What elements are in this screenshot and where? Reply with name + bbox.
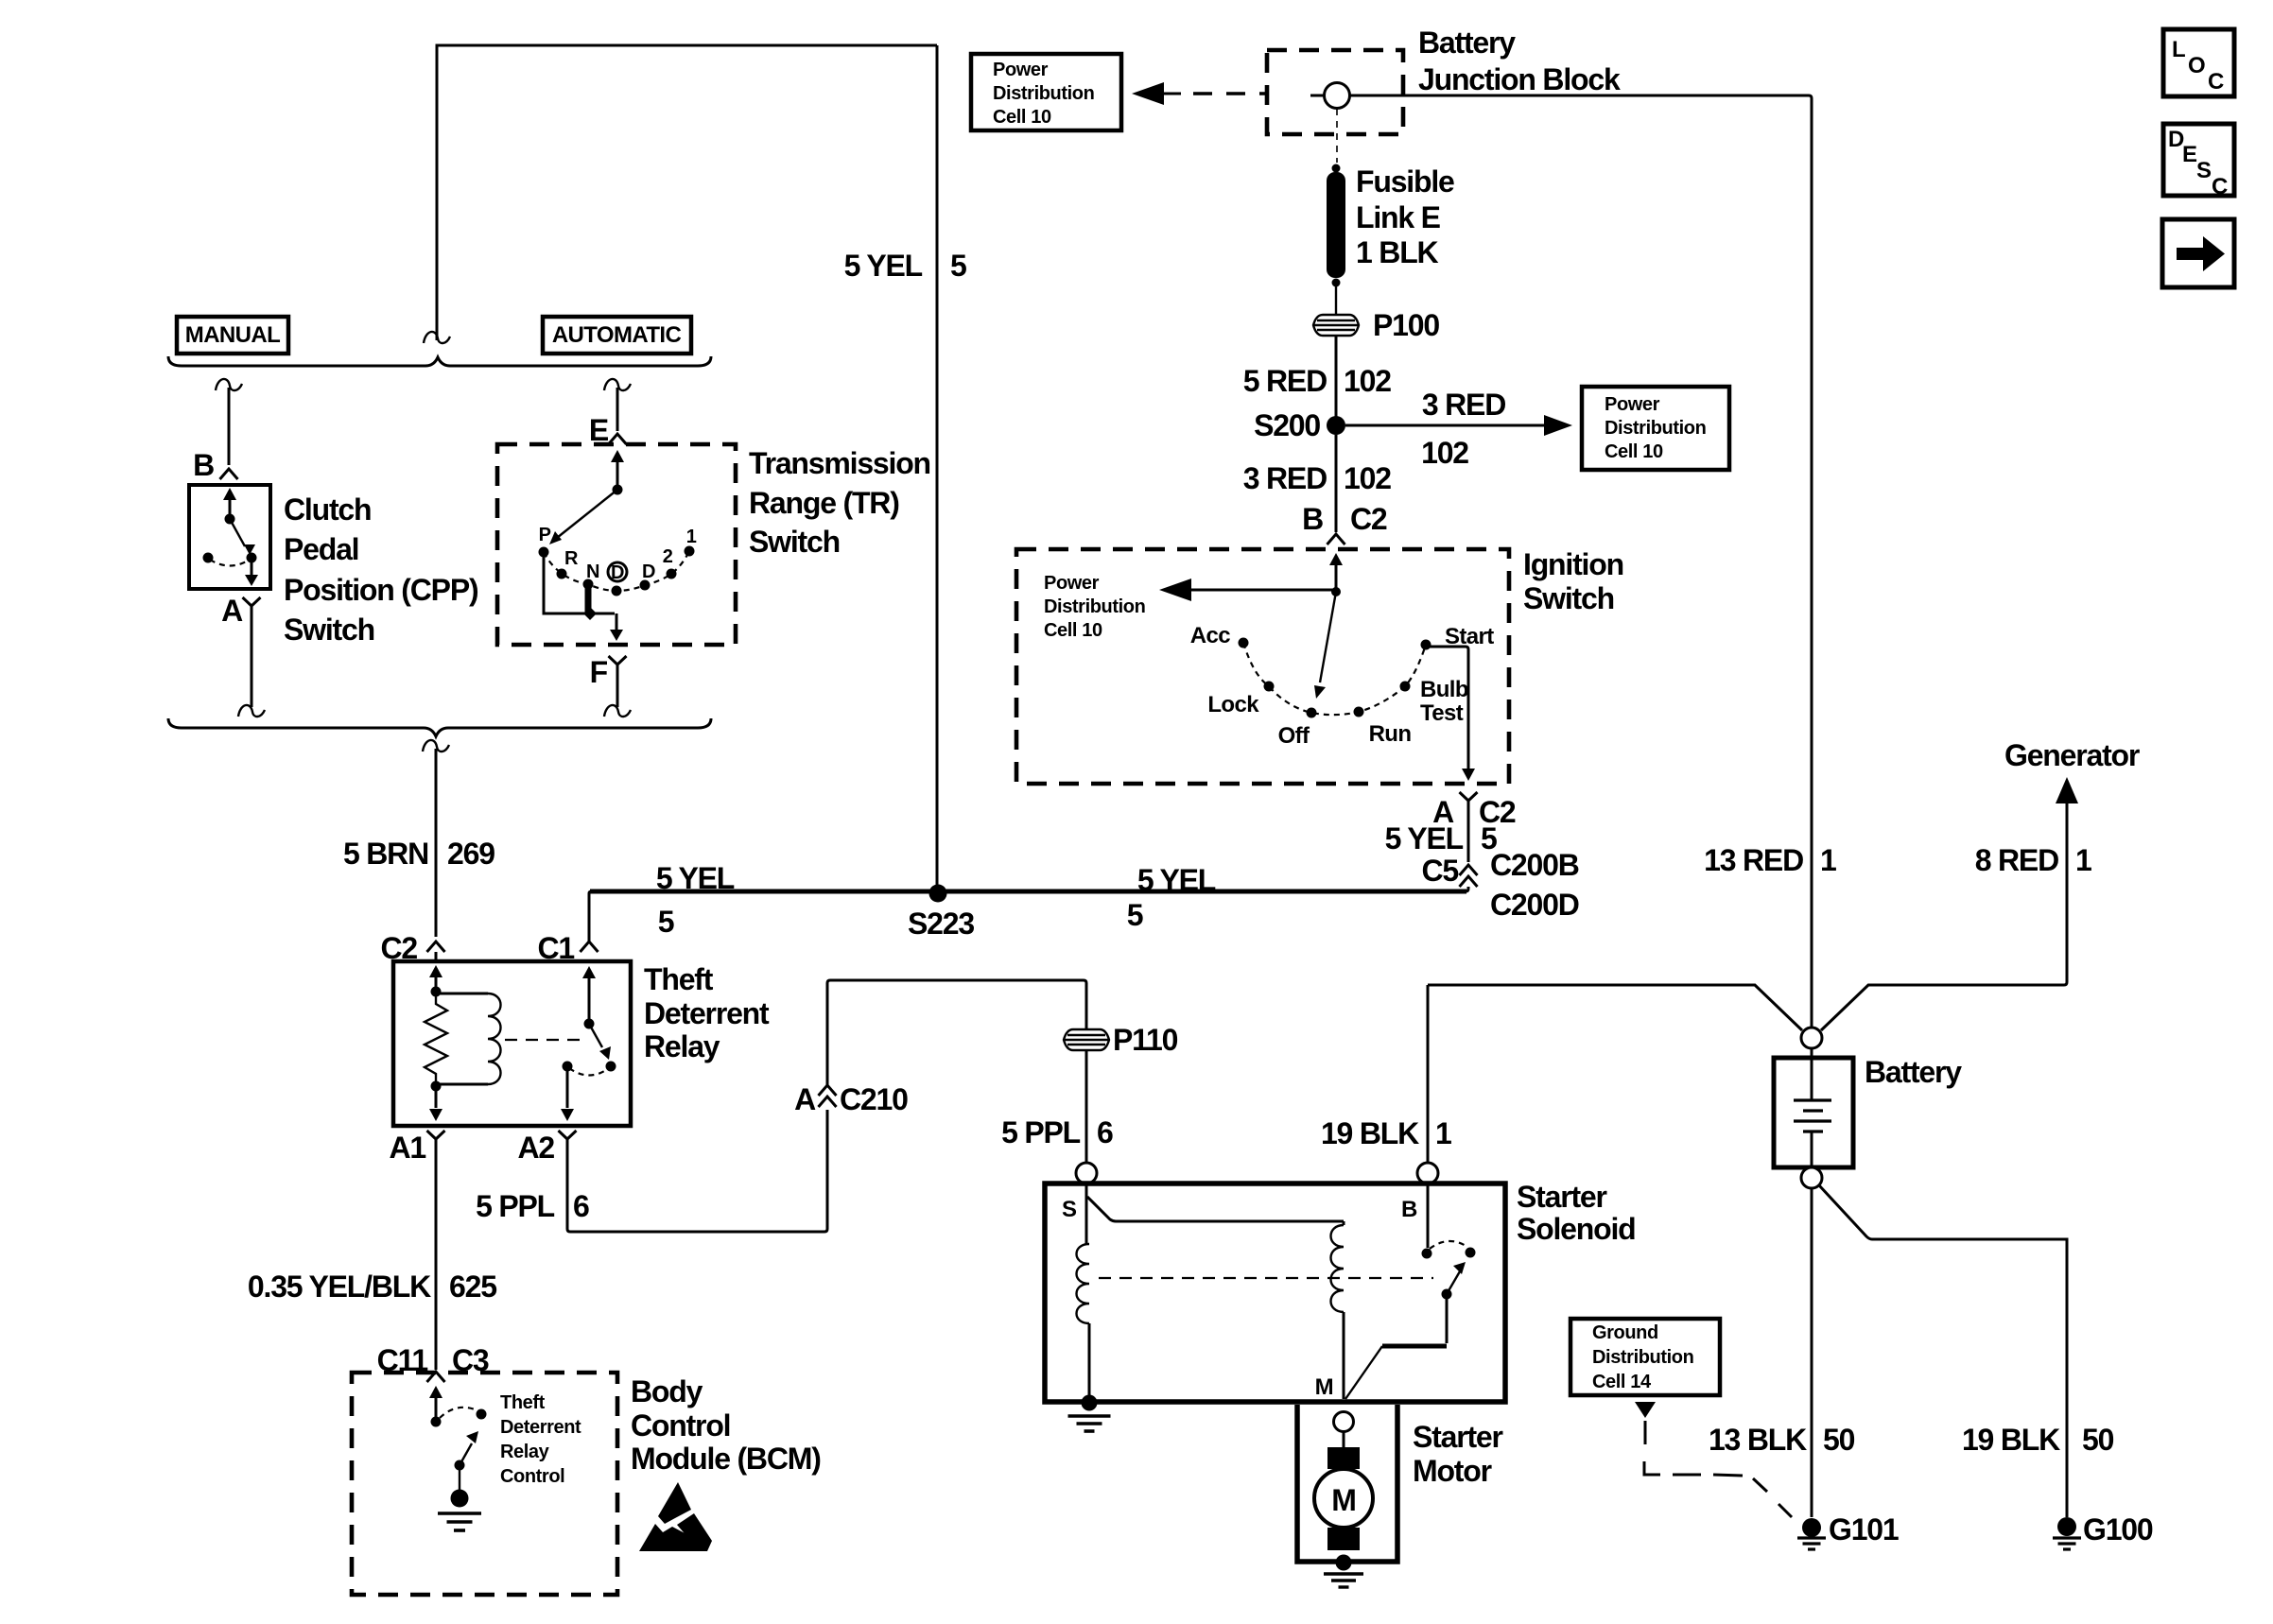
clutch pedal position switch box <box>189 485 270 589</box>
CPP switch travel dashed arc <box>210 560 250 566</box>
svg-text:Power: Power <box>1044 573 1100 594</box>
svg-text:MANUAL: MANUAL <box>185 322 280 348</box>
svg-text:50: 50 <box>2082 1423 2114 1457</box>
TR switch position N <box>583 579 594 590</box>
svg-text:E: E <box>2182 142 2197 167</box>
connector A C2 below ignition switch <box>1460 792 1478 807</box>
svg-text:Body: Body <box>631 1374 703 1408</box>
svg-text:B: B <box>1302 502 1323 536</box>
starter motor ground <box>1336 1555 1352 1571</box>
CPP switch contact arrow up <box>229 497 232 519</box>
svg-text:5 YEL: 5 YEL <box>1137 863 1216 897</box>
svg-text:C2: C2 <box>1350 502 1387 536</box>
TR switch output arrow down to F <box>616 613 618 630</box>
svg-text:5 YEL: 5 YEL <box>844 249 923 283</box>
ignition start wire down to A terminal <box>1426 647 1468 769</box>
TR switch travel dashed arc <box>544 551 689 591</box>
svg-text:8 RED: 8 RED <box>1975 843 2058 877</box>
solenoid moving contact <box>1442 1289 1452 1300</box>
battery box <box>1774 1058 1853 1167</box>
svg-text:AUTOMATIC: AUTOMATIC <box>552 322 682 348</box>
relay contact arrow down to A1 <box>435 1086 438 1108</box>
svg-text:Solenoid: Solenoid <box>1517 1212 1636 1246</box>
svg-text:F: F <box>590 655 608 689</box>
solenoid contact travel dashed arc <box>1430 1241 1467 1249</box>
legend LOC box <box>2163 29 2234 96</box>
svg-text:Distribution: Distribution <box>1605 418 1706 439</box>
svg-text:Deterrent: Deterrent <box>644 996 770 1030</box>
fusible link E 1 BLK <box>1332 164 1341 173</box>
wire 5 RED 102 <box>1335 336 1338 417</box>
connector C5 C200B C200D double chevron <box>1460 865 1478 875</box>
svg-text:D: D <box>611 562 624 583</box>
TR junction diamond <box>583 607 597 620</box>
legend DESC box <box>2163 124 2234 196</box>
svg-text:L: L <box>2172 37 2185 62</box>
starter solenoid S terminal circle <box>1076 1163 1097 1183</box>
svg-text:1 BLK: 1 BLK <box>1356 235 1439 269</box>
dashed arrow from battery junction block to power distribution <box>1132 82 1164 105</box>
svg-text:Ground: Ground <box>1592 1322 1658 1343</box>
svg-text:C: C <box>2208 69 2224 95</box>
TR switch position P <box>539 547 549 558</box>
svg-text:Control: Control <box>500 1466 564 1487</box>
svg-text:1: 1 <box>686 527 697 547</box>
starter solenoid B terminal circle <box>1417 1163 1438 1183</box>
svg-text:5 RED: 5 RED <box>1243 364 1327 398</box>
svg-text:Fusible: Fusible <box>1356 164 1454 199</box>
svg-text:13 RED: 13 RED <box>1704 843 1803 877</box>
svg-text:Deterrent: Deterrent <box>500 1417 581 1438</box>
svg-text:C1: C1 <box>537 931 574 965</box>
wire from F to lower brace <box>616 671 619 707</box>
solenoid S wire to windings <box>1085 1183 1088 1244</box>
svg-text:Acc: Acc <box>1190 623 1230 648</box>
BCM theft deterrent relay control driver arrow <box>435 1397 438 1422</box>
solenoid hold-in winding <box>1331 1225 1345 1312</box>
ignition switch arrow left to power distribution <box>1175 589 1336 592</box>
label MANUAL <box>177 317 288 354</box>
svg-text:C200B: C200B <box>1490 848 1579 882</box>
grommet P110 <box>1064 1029 1109 1050</box>
svg-text:Cell 10: Cell 10 <box>1044 620 1102 641</box>
starter motor housing <box>1297 1405 1397 1562</box>
ignition switch movable blade <box>1320 592 1336 682</box>
theft deterrent relay box <box>393 961 631 1126</box>
TR switch movable blade to P <box>557 490 617 538</box>
svg-text:P100: P100 <box>1373 308 1439 342</box>
svg-text:M: M <box>1331 1483 1355 1517</box>
wire TR branch with break curl <box>604 379 631 390</box>
svg-text:6: 6 <box>573 1189 589 1223</box>
TR switch position 2 <box>667 569 677 579</box>
TR switch position R <box>557 569 567 579</box>
junction block terminal circle <box>1310 95 1324 97</box>
solenoid linkage dashed <box>1099 1277 1433 1279</box>
ignition position Lock <box>1264 682 1275 692</box>
wire 3 RED 102 from S200 down to ignition <box>1335 435 1338 532</box>
wire 5 YEL from C1 up to bus <box>589 891 592 942</box>
svg-text:Switch: Switch <box>284 613 374 647</box>
starter motor M terminal circle <box>1334 1412 1354 1432</box>
wire 5 YEL 5 ignition output <box>1467 807 1470 862</box>
svg-text:Module (BCM): Module (BCM) <box>631 1442 821 1476</box>
svg-text:Distribution: Distribution <box>993 83 1094 104</box>
wire 5 BRN 269 from brace to C2 <box>423 740 449 752</box>
wire generator 8 RED 1 <box>1821 790 2067 1030</box>
transmission range switch dashed box <box>497 444 736 645</box>
svg-text:A1: A1 <box>389 1131 425 1165</box>
svg-text:5: 5 <box>1127 898 1143 932</box>
grommet P100 <box>1313 315 1359 336</box>
svg-text:A2: A2 <box>517 1131 554 1165</box>
svg-text:102: 102 <box>1344 364 1391 398</box>
svg-text:3 RED: 3 RED <box>1422 388 1505 422</box>
arrow 3 RED 102 to power distribution <box>1345 424 1558 427</box>
relay resistor <box>425 992 447 1086</box>
svg-text:Cell 10: Cell 10 <box>1605 441 1663 462</box>
svg-text:S: S <box>2196 158 2212 183</box>
wire C5 into 5 YEL bus <box>1466 887 1468 891</box>
TR switch position D circled <box>608 562 627 581</box>
ground G101 <box>1802 1518 1821 1537</box>
svg-text:Off: Off <box>1278 723 1310 749</box>
battery junction block dashed box <box>1267 50 1403 134</box>
ignition switch arrow up to B terminal <box>1335 564 1338 592</box>
svg-text:5 YEL: 5 YEL <box>656 861 735 895</box>
ignition position Off <box>1307 708 1317 718</box>
svg-text:P: P <box>539 525 551 545</box>
wire 5 PPL 6 to starter solenoid S <box>1085 1050 1088 1162</box>
svg-text:Ignition: Ignition <box>1523 547 1623 581</box>
svg-text:S200: S200 <box>1254 408 1320 442</box>
splice S200 <box>1327 416 1345 435</box>
svg-text:B: B <box>1401 1197 1417 1222</box>
wire A2 5 PPL to C210 <box>567 1110 827 1232</box>
svg-text:Power: Power <box>993 60 1049 80</box>
svg-text:5 YEL: 5 YEL <box>1385 821 1464 855</box>
power distribution cell 10 box (right of S200) <box>1582 387 1729 470</box>
wire 19 BLK 1 to starter B <box>1427 985 1430 1162</box>
ignition travel dashed arc <box>1243 643 1426 715</box>
svg-text:Theft: Theft <box>500 1392 546 1413</box>
svg-text:N: N <box>586 561 599 582</box>
wire from A to lower brace <box>251 613 253 707</box>
svg-text:A: A <box>221 594 243 628</box>
svg-text:5: 5 <box>950 249 966 283</box>
relay contact arrow up at C2 side <box>435 976 438 992</box>
solenoid pull-in winding <box>1077 1244 1090 1323</box>
svg-text:C200D: C200D <box>1490 888 1579 922</box>
wire battery negative to grounds <box>1811 1188 1813 1517</box>
wire A1 0.35 YEL/BLK 625 <box>435 1146 438 1370</box>
svg-text:Clutch: Clutch <box>284 492 371 527</box>
wire starter B feed horizontal <box>1428 985 1802 1030</box>
svg-text:1: 1 <box>1435 1116 1451 1150</box>
relay contacts <box>563 1062 573 1072</box>
ESD sensitive symbol <box>658 1482 691 1524</box>
svg-text:Link E: Link E <box>1356 200 1441 234</box>
svg-text:Motor: Motor <box>1413 1454 1492 1488</box>
TR switch P wire to output <box>544 552 615 613</box>
power distribution cell 10 box (top left) <box>971 54 1121 130</box>
ignition position Start <box>1421 640 1431 650</box>
svg-text:102: 102 <box>1421 436 1468 470</box>
svg-text:S223: S223 <box>908 907 974 941</box>
svg-text:G100: G100 <box>2083 1512 2153 1546</box>
relay contact arrow down to A2 <box>566 1066 569 1108</box>
wire from junction block to battery (13 RED) <box>1350 95 1812 1028</box>
svg-text:Starter: Starter <box>1517 1180 1607 1214</box>
wire CPP branch with break curl <box>216 379 242 390</box>
svg-text:50: 50 <box>1823 1423 1855 1457</box>
battery negative terminal circle <box>1801 1167 1822 1188</box>
svg-text:E: E <box>589 413 609 447</box>
svg-text:C: C <box>2212 174 2228 199</box>
svg-text:Lock: Lock <box>1207 692 1259 717</box>
CPP switch movable blade <box>230 519 245 546</box>
svg-text:O: O <box>2188 53 2205 78</box>
starter motor brushes <box>1343 1431 1345 1448</box>
svg-text:B: B <box>193 448 214 482</box>
wire 5 YEL bus (thick) <box>590 890 1466 894</box>
svg-text:Pedal: Pedal <box>284 532 358 566</box>
TR switch position D <box>640 580 651 591</box>
wire C210 up and over to P110 <box>827 980 1086 1085</box>
svg-text:D: D <box>642 561 655 582</box>
svg-text:M: M <box>1315 1374 1333 1400</box>
svg-text:C5: C5 <box>1421 854 1458 888</box>
relay linkage dashed <box>505 1039 581 1041</box>
relay coil <box>436 993 488 1084</box>
svg-text:5: 5 <box>658 905 674 939</box>
legend forward arrow box <box>2162 219 2234 287</box>
connector B of CPP switch <box>220 469 238 479</box>
relay switch arm from C1 <box>588 977 591 1024</box>
svg-text:Switch: Switch <box>749 525 840 559</box>
svg-text:Relay: Relay <box>500 1442 550 1462</box>
ignition position Run <box>1354 707 1364 717</box>
svg-text:Distribution: Distribution <box>1592 1347 1693 1368</box>
CPP switch contacts <box>203 553 214 563</box>
svg-text:P110: P110 <box>1113 1023 1178 1057</box>
svg-text:Test: Test <box>1420 700 1464 726</box>
ground distribution cell 14 box <box>1570 1319 1720 1395</box>
ignition position Acc <box>1239 638 1249 648</box>
svg-text:1: 1 <box>2075 843 2091 877</box>
ground distribution dashed pointer to G101 <box>1635 1402 1656 1418</box>
svg-text:102: 102 <box>1344 461 1391 495</box>
svg-text:Starter: Starter <box>1413 1420 1503 1454</box>
battery cells symbol <box>1811 1048 1813 1099</box>
body control module dashed box <box>352 1373 617 1595</box>
connector A C210 double chevron <box>819 1097 837 1107</box>
label AUTOMATIC <box>543 317 691 354</box>
solenoid B contact <box>1427 1183 1430 1248</box>
svg-text:3 RED: 3 RED <box>1243 461 1327 495</box>
svg-text:Cell 14: Cell 14 <box>1592 1372 1652 1392</box>
CPP switch contact arrow down <box>251 558 253 577</box>
svg-text:5 PPL: 5 PPL <box>1001 1115 1081 1149</box>
relay contact travel dashed arc <box>569 1068 609 1076</box>
brace bottom (manual/automatic merge) <box>168 718 711 736</box>
ground G100 <box>2057 1517 2076 1536</box>
svg-text:625: 625 <box>449 1270 496 1304</box>
svg-text:19 BLK: 19 BLK <box>1321 1116 1419 1150</box>
BCM switch dashed arc <box>440 1408 479 1418</box>
svg-text:Theft: Theft <box>644 962 714 996</box>
svg-text:Power: Power <box>1605 394 1660 415</box>
svg-text:1: 1 <box>1820 843 1836 877</box>
svg-text:Relay: Relay <box>644 1029 720 1063</box>
svg-text:Bulb: Bulb <box>1420 677 1468 702</box>
svg-text:13 BLK: 13 BLK <box>1709 1423 1807 1457</box>
BCM switch blade and ball <box>459 1465 460 1497</box>
svg-text:0.35 YEL/BLK: 0.35 YEL/BLK <box>248 1270 431 1304</box>
starter solenoid box <box>1045 1183 1505 1402</box>
battery positive terminal circle <box>1801 1028 1822 1048</box>
svg-text:Battery: Battery <box>1418 26 1516 60</box>
svg-text:G101: G101 <box>1829 1512 1899 1546</box>
solenoid winding ground <box>1082 1395 1098 1411</box>
svg-text:Range (TR): Range (TR) <box>749 486 899 520</box>
starter motor armature M <box>1314 1469 1373 1528</box>
svg-text:R: R <box>564 548 579 569</box>
svg-text:Cell 10: Cell 10 <box>993 107 1051 128</box>
ignition position Bulb Test <box>1400 682 1411 692</box>
svg-text:S: S <box>1062 1197 1077 1222</box>
svg-text:6: 6 <box>1097 1115 1113 1149</box>
svg-text:5 BRN: 5 BRN <box>343 837 428 871</box>
svg-text:A: A <box>794 1082 816 1116</box>
svg-text:Distribution: Distribution <box>1044 596 1145 617</box>
wire fusible link to P100 <box>1335 283 1337 315</box>
TR switch wire arrow up to E <box>616 459 619 490</box>
svg-text:19 BLK: 19 BLK <box>1962 1423 2060 1457</box>
svg-text:Junction Block: Junction Block <box>1418 62 1621 96</box>
wire break symbol above manual/automatic brace <box>424 332 450 343</box>
svg-text:Switch: Switch <box>1523 581 1614 615</box>
svg-text:C210: C210 <box>840 1082 908 1116</box>
ignition switch pivot dot <box>1331 587 1341 596</box>
brace top (manual/automatic split) <box>168 356 711 366</box>
svg-text:Position (CPP): Position (CPP) <box>284 573 478 607</box>
svg-text:Battery: Battery <box>1865 1055 1962 1089</box>
svg-text:Transmission: Transmission <box>749 446 930 480</box>
junction S223 <box>936 45 939 890</box>
ignition switch dashed box <box>1016 549 1509 784</box>
TR switch N wire bold stem <box>585 584 592 613</box>
svg-text:Run: Run <box>1369 721 1412 747</box>
svg-text:5 PPL: 5 PPL <box>476 1189 555 1223</box>
TR switch position 1 <box>685 546 695 557</box>
svg-text:2: 2 <box>663 546 673 567</box>
solenoid NO contact <box>1466 1248 1476 1258</box>
svg-text:Control: Control <box>631 1408 730 1443</box>
svg-text:Generator: Generator <box>2004 738 2140 772</box>
svg-text:269: 269 <box>447 837 495 871</box>
wire top feed rail <box>437 45 937 340</box>
dashed lead into fusible link <box>1336 109 1338 163</box>
